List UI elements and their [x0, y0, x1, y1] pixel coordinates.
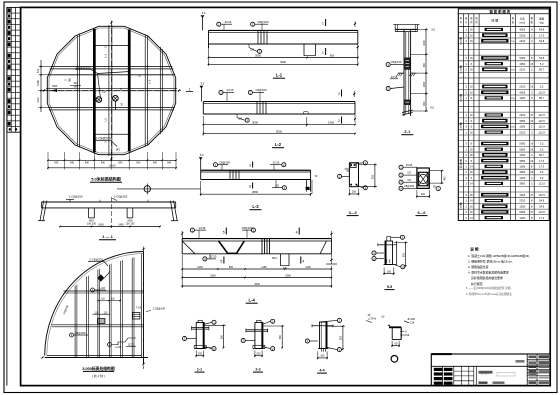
svg-text:1260: 1260	[519, 153, 525, 157]
svg-text:C8: C8	[407, 178, 411, 182]
svg-text:4: 4	[302, 259, 304, 263]
section 4-4	[312, 322, 333, 352]
svg-text:17.3: 17.3	[539, 33, 545, 37]
svg-text:M16: M16	[272, 257, 277, 260]
3-3 right dim	[359, 164, 378, 188]
L-4 section mark 4 top	[296, 228, 300, 235]
svg-text:5.0: 5.0	[432, 28, 436, 32]
svg-text:2210: 2210	[519, 33, 525, 37]
svg-text:1080: 1080	[36, 80, 40, 86]
svg-text:5.2: 5.2	[540, 170, 544, 174]
svg-text:5.0米标高结构图: 5.0米标高结构图	[91, 176, 121, 182]
L-2 section mark 2 bottom	[338, 117, 341, 124]
4-4 label	[317, 369, 327, 374]
svg-text:17.3: 17.3	[539, 159, 545, 163]
svg-text:200: 200	[352, 191, 357, 194]
1-1 dimension	[59, 223, 161, 227]
svg-text:L-1: L-1	[276, 73, 283, 78]
svg-text:4430: 4430	[254, 283, 260, 286]
5.000 plan leader text near right edge	[146, 307, 166, 312]
L-3 end detail text	[312, 175, 318, 194]
5.000 plan callout top	[88, 258, 108, 267]
svg-text:350: 350	[220, 334, 223, 339]
svg-text:100 100: 100 100	[125, 222, 135, 225]
svg-text:1260: 1260	[519, 216, 525, 220]
L-1 dimension tier 1	[208, 53, 359, 58]
plan: wall column bar left	[93, 29, 96, 152]
svg-text:100 100: 100 100	[87, 222, 97, 225]
svg-text:112.5: 112.5	[539, 193, 546, 197]
svg-text:1000: 1000	[423, 40, 426, 46]
title block middle grid	[454, 366, 515, 385]
plan: beam tags	[104, 46, 152, 143]
1-1s callout left	[182, 336, 196, 340]
Z-1 left callout lower	[386, 75, 404, 91]
L-2 callout 3 below	[237, 114, 249, 122]
6-6 label	[416, 211, 428, 216]
plan: title 5.0m level framing	[90, 176, 122, 183]
svg-text:L3: L3	[104, 118, 108, 122]
L-2 callout 2	[248, 88, 267, 101]
svg-text:100: 100	[73, 81, 78, 85]
svg-text:1180: 1180	[261, 266, 267, 269]
svg-text:2210: 2210	[519, 85, 525, 89]
svg-text:112.5: 112.5	[539, 125, 546, 129]
1-1s bottom dim	[195, 351, 204, 358]
svg-text:1260: 1260	[519, 165, 525, 169]
column Z-1 elevation	[393, 24, 419, 116]
5.000 plan label	[82, 366, 114, 378]
svg-text:5: 5	[223, 230, 225, 234]
svg-text:80.7: 80.7	[539, 153, 545, 157]
svg-text:2C16: 2C16	[227, 88, 234, 92]
svg-text:54.8: 54.8	[539, 28, 545, 32]
Z-1 label	[401, 129, 413, 135]
plan: bolt circle A	[96, 97, 102, 103]
svg-text:5.2: 5.2	[540, 142, 544, 146]
svg-text:( 共 2 处 ): ( 共 2 处 )	[92, 373, 105, 378]
rebar table rows	[458, 28, 549, 220]
L-3 left elevation mark	[199, 153, 204, 170]
svg-text:4C18: 4C18	[391, 75, 398, 79]
svg-text:2210: 2210	[519, 199, 525, 203]
svg-text:L-C8@200: L-C8@200	[114, 194, 128, 198]
L-2 dimension tier 1	[203, 117, 356, 127]
svg-text:2C16: 2C16	[273, 160, 280, 164]
L-1 callout 1	[217, 20, 232, 31]
svg-text:1450: 1450	[98, 223, 104, 226]
svg-text:54.8: 54.8	[539, 199, 545, 203]
svg-text:900: 900	[423, 62, 426, 67]
svg-text:54.8: 54.8	[539, 39, 545, 43]
L-4 callout 1 top	[190, 226, 206, 239]
L-4 dimension tier 1	[181, 266, 332, 270]
1-1s callout bottom + dim	[203, 325, 225, 351]
5.000 plan H-beam symbol B	[133, 306, 142, 319]
3-3 label	[347, 211, 359, 216]
svg-text:350: 350	[402, 252, 405, 257]
2-2 right dim	[262, 325, 284, 351]
svg-text:5000: 5000	[519, 147, 525, 151]
beam L-3 elevation	[201, 170, 311, 191]
section 1-1 small	[192, 320, 209, 348]
section 6-6 column	[417, 168, 429, 188]
plan: left dimension chain	[36, 60, 58, 112]
svg-text:L-2: L-2	[148, 80, 152, 85]
L-1 callout 2	[251, 20, 269, 31]
svg-text:简 图: 简 图	[491, 18, 498, 23]
svg-text:1-C8: 1-C8	[115, 346, 121, 349]
svg-text:Z: Z	[104, 46, 108, 48]
svg-text:1050: 1050	[197, 266, 203, 269]
L-3 callout left	[213, 160, 230, 170]
L-1 right end marks	[354, 21, 359, 50]
L-3 section mark 3 top	[249, 162, 253, 168]
5.000 plan axis marks	[40, 247, 148, 370]
svg-text:4-4: 4-4	[319, 369, 324, 373]
svg-text:1: 1	[189, 88, 191, 92]
section 5-5	[378, 237, 397, 265]
svg-text:112.5: 112.5	[539, 210, 546, 214]
Z-1 left callout upper	[386, 60, 404, 67]
svg-text:6—6: 6—6	[417, 211, 425, 215]
svg-text:2C16: 2C16	[199, 226, 206, 230]
svg-text:200: 200	[387, 270, 392, 273]
5.000 plan diamond gusset	[97, 272, 110, 282]
6-6 leader callouts	[399, 163, 417, 191]
svg-text:说 明:: 说 明:	[470, 246, 479, 251]
svg-text:5.2: 5.2	[540, 176, 544, 180]
svg-text:600: 600	[423, 101, 426, 106]
4-4 callout left	[305, 339, 317, 343]
svg-text:C8@200: C8@200	[404, 184, 415, 188]
svg-text:2C20: 2C20	[210, 255, 217, 259]
svg-text:3950: 3950	[519, 159, 525, 163]
svg-text:4C18: 4C18	[406, 163, 413, 167]
svg-text:3950: 3950	[519, 62, 525, 66]
svg-text:112.5: 112.5	[539, 182, 546, 186]
svg-text:2C16: 2C16	[225, 20, 232, 24]
svg-text:940: 940	[153, 162, 158, 165]
svg-text:L-2: L-2	[275, 142, 282, 147]
1-1s callout top	[203, 320, 216, 324]
svg-text:112.5: 112.5	[539, 90, 546, 94]
plan: callout 1-C8@200 top	[75, 65, 130, 98]
section 3-3	[345, 163, 359, 187]
svg-text:L-3: L-3	[252, 204, 259, 209]
svg-text:1-1: 1-1	[197, 368, 202, 372]
svg-text:C8@100: C8@100	[391, 60, 402, 64]
svg-text:2: 2	[338, 119, 340, 123]
beam L-4 elevation	[182, 239, 331, 266]
L-3 callout right top	[270, 160, 286, 170]
L-4 dimension tier 3	[181, 255, 332, 288]
svg-text:1170: 1170	[36, 97, 40, 103]
svg-text:Z-1: Z-1	[404, 129, 411, 134]
svg-text:200: 200	[320, 355, 325, 358]
5.000 plan interior verticals	[75, 257, 134, 357]
svg-text:5: 5	[220, 259, 222, 263]
svg-text:940: 940	[101, 162, 106, 165]
L-4 left top marks	[181, 231, 183, 239]
svg-text:13100: 13100	[109, 164, 117, 167]
2-2 label	[253, 368, 263, 373]
svg-text:4025: 4025	[519, 90, 525, 94]
axis bubble right of 1-1	[117, 184, 201, 195]
svg-text:3—3: 3—3	[349, 211, 357, 215]
svg-text:5.000标高处结构图: 5.000标高处结构图	[82, 366, 114, 371]
section 1-1 wide beam	[38, 199, 178, 220]
svg-text:长度: 长度	[520, 17, 525, 21]
svg-text:1: 1	[322, 51, 324, 55]
svg-text:Φ8: Φ8	[68, 78, 72, 82]
L-3 callout right bottom	[272, 180, 286, 190]
L-1 callout 3 below	[249, 44, 262, 54]
svg-text:-0.6: -0.6	[430, 106, 435, 110]
L-4 dimension tier 2	[181, 274, 332, 278]
5-5 right dim	[394, 242, 408, 269]
plan grid: horizontal beams	[46, 46, 177, 135]
svg-text:200: 200	[198, 353, 203, 356]
1-1 label	[99, 234, 116, 240]
L-1 dimension tier 2	[208, 46, 359, 66]
5.000 plan callout C1	[91, 286, 106, 292]
svg-text:1-C8@200: 1-C8@200	[75, 65, 91, 69]
L-4 section mark 5 top	[223, 228, 227, 235]
svg-text:5. ⌐ ¬ 表示Φ8@200双向筋加密区,详图.: 5. ⌐ ¬ 表示Φ8@200双向筋加密区,详图.	[466, 286, 511, 290]
5-5 bottom dim	[383, 268, 394, 276]
svg-text:-8×100: -8×100	[407, 317, 416, 321]
svg-text:4. 梁柱节点区箍筋加密构造要求: 4. 梁柱节点区箍筋加密构造要求	[468, 270, 509, 275]
svg-text:3: 3	[249, 184, 251, 188]
L-1 section mark 1 top	[322, 19, 326, 26]
svg-text:L-C8: L-C8	[99, 286, 105, 290]
svg-text:950: 950	[330, 53, 335, 57]
svg-text:54.8: 54.8	[539, 56, 545, 60]
3-3 callout top	[356, 161, 367, 165]
L-2 right end marks	[353, 91, 356, 123]
beam L-2 elevation	[203, 102, 355, 115]
svg-text:112.5: 112.5	[539, 113, 546, 117]
svg-text:2-C8@200: 2-C8@200	[89, 258, 103, 262]
svg-text:5-5: 5-5	[387, 285, 392, 289]
plan: centre axis lines	[42, 21, 181, 161]
L-3 label	[250, 204, 262, 210]
4-4 right dim	[327, 325, 345, 351]
svg-text:140: 140	[73, 85, 78, 89]
svg-text:5.0: 5.0	[201, 82, 205, 86]
4-4 callout top right	[320, 318, 342, 322]
svg-text:1850: 1850	[210, 274, 216, 277]
svg-text:5.0: 5.0	[200, 153, 204, 157]
svg-text:3: 3	[249, 163, 251, 167]
svg-text:1260: 1260	[519, 204, 525, 208]
svg-text:4000: 4000	[280, 60, 286, 64]
svg-text:350: 350	[340, 335, 343, 340]
svg-text:2210: 2210	[519, 113, 525, 117]
svg-text:2580: 2580	[285, 274, 291, 277]
svg-text:3. 钢筋锚固长度: 3. 钢筋锚固长度	[468, 264, 489, 269]
connection detail angle	[366, 314, 416, 339]
5-5 callouts left	[372, 251, 384, 261]
svg-text:3950: 3950	[519, 170, 525, 174]
svg-text:5.0: 5.0	[202, 11, 206, 15]
svg-text:1-C8@140: 1-C8@140	[153, 307, 166, 311]
svg-text:2210: 2210	[519, 39, 525, 43]
svg-text:L-1: L-1	[104, 54, 108, 59]
L-1 section mark 1 bottom	[322, 48, 326, 55]
Z-1 right dimension chain	[411, 28, 436, 112]
svg-text:1: 1	[322, 22, 324, 26]
1-1 labels above	[69, 194, 128, 200]
svg-text:570: 570	[36, 68, 40, 73]
L-4 stub texts	[272, 257, 287, 270]
svg-text:2210: 2210	[519, 68, 525, 72]
svg-text:6380: 6380	[519, 210, 525, 214]
svg-text:940: 940	[54, 162, 59, 165]
L-4 callout 3 top	[241, 226, 255, 239]
svg-text:C8@200: C8@200	[75, 331, 86, 335]
svg-text:1400: 1400	[328, 120, 334, 124]
4-4 bottom dim	[317, 352, 328, 360]
svg-text:7890: 7890	[52, 85, 58, 88]
svg-text:112.5: 112.5	[539, 130, 546, 134]
2-2 bottom dim	[254, 351, 263, 358]
L-4 section mark 4 bottom	[301, 257, 305, 264]
2-2 callout top	[262, 319, 275, 324]
1-1 centreline	[110, 197, 112, 228]
svg-text:C8@100: C8@100	[257, 20, 269, 24]
svg-text:1000: 1000	[423, 81, 426, 87]
svg-text:C8: C8	[250, 47, 254, 51]
L-3 dimension	[200, 181, 311, 196]
svg-text:1260: 1260	[519, 96, 525, 100]
beam L-1 elevation	[209, 30, 358, 55]
3-3 bottom dim	[349, 189, 360, 196]
svg-text:54.8: 54.8	[539, 204, 545, 208]
3-3 callout left	[338, 174, 350, 178]
plan: bolt circle B	[113, 96, 119, 110]
svg-text:C8: C8	[238, 117, 242, 121]
svg-text:5.2: 5.2	[540, 85, 544, 89]
notes block	[466, 246, 529, 296]
svg-text:940: 940	[167, 162, 172, 165]
L-2 callout 1	[219, 88, 234, 101]
svg-text:L-4: L-4	[249, 298, 256, 303]
svg-text:1260: 1260	[519, 193, 525, 197]
svg-text:(mm): (mm)	[520, 22, 526, 25]
5.000 plan step detail	[108, 338, 136, 349]
svg-text:4025: 4025	[519, 28, 525, 32]
svg-text:3050: 3050	[255, 53, 261, 57]
L-2 dimension tier 2	[203, 116, 356, 136]
5-5 label	[385, 285, 395, 290]
svg-text:1260: 1260	[519, 125, 525, 129]
svg-text:2C12: 2C12	[128, 344, 135, 347]
svg-text:1260: 1260	[519, 176, 525, 180]
title block revision cells	[434, 366, 454, 385]
revision strip table	[7, 7, 21, 132]
plan: small texts left cluster	[64, 78, 123, 94]
plan grid: vertical beams	[77, 25, 162, 156]
svg-text:5.2: 5.2	[540, 147, 544, 151]
svg-text:C8@200: C8@200	[219, 160, 231, 164]
svg-text:C8@100: C8@100	[255, 88, 267, 92]
svg-text:140: 140	[115, 148, 120, 152]
svg-text:见标准图集相关做法要求: 见标准图集相关做法要求	[471, 275, 503, 280]
5.000 level plan outline	[45, 252, 148, 365]
2-2 callout left	[241, 338, 255, 342]
svg-text:112.5: 112.5	[539, 119, 546, 123]
svg-text:2-2: 2-2	[255, 368, 260, 372]
svg-text:5000: 5000	[276, 129, 282, 133]
plan: callout bottom L-C8	[95, 137, 120, 152]
svg-text:1-C8@200: 1-C8@200	[69, 194, 83, 198]
svg-text:400: 400	[444, 176, 447, 181]
plan: bottom dimension chain	[47, 152, 177, 170]
L-2 label	[272, 142, 284, 148]
5.000 plan H-beam symbol A	[93, 312, 111, 323]
svg-text:3950: 3950	[519, 182, 525, 186]
svg-text:执行规范.: 执行规范.	[471, 281, 484, 286]
5.000 plan callout C3	[70, 331, 88, 337]
1-1s label	[195, 368, 205, 373]
svg-text:350: 350	[279, 334, 282, 339]
svg-text:940: 940	[70, 162, 75, 165]
svg-text:5000: 5000	[519, 56, 525, 60]
svg-text:C16: C16	[410, 322, 415, 325]
svg-text:1 — 1: 1 — 1	[102, 234, 113, 239]
svg-text:1-C8@200: 1-C8@200	[95, 137, 111, 141]
svg-text:80.7: 80.7	[539, 96, 545, 100]
connection detail bottom dim	[391, 341, 400, 347]
svg-text:1400: 1400	[305, 266, 311, 269]
L-4 label	[246, 298, 258, 304]
3-3 callout bottom	[357, 186, 367, 191]
L-4 callout below left	[203, 254, 217, 261]
svg-text:5000: 5000	[519, 142, 525, 146]
6-6 right dims	[429, 170, 446, 191]
svg-text:2: 2	[338, 92, 340, 96]
svg-text:400: 400	[421, 193, 426, 196]
svg-text:940: 940	[118, 162, 123, 165]
L-1 left elevation mark	[201, 11, 206, 30]
svg-text:2. 钢筋保护层 梁柱25mm,板15mm.: 2. 钢筋保护层 梁柱25mm,板15mm.	[468, 258, 513, 263]
svg-text:C8: C8	[407, 171, 411, 175]
L-2 section mark 2 top	[338, 90, 341, 97]
svg-text:3600: 3600	[252, 120, 258, 124]
svg-text:200: 200	[256, 353, 261, 356]
svg-text:5.2: 5.2	[540, 62, 544, 66]
svg-text:2800: 2800	[252, 190, 258, 194]
svg-text:2210: 2210	[519, 130, 525, 134]
rebar schedule table	[458, 9, 549, 221]
svg-text:7-C8: 7-C8	[136, 306, 142, 309]
1-1 texts below stubs	[87, 219, 135, 225]
svg-text:800: 800	[229, 266, 234, 269]
plan: wall column bar right	[128, 29, 131, 151]
L-1 label	[273, 73, 285, 79]
5-5 callout top right	[391, 235, 405, 239]
6-6 bottom dim	[416, 190, 430, 198]
section 2-2 small	[246, 320, 268, 348]
connection detail axis bubble	[391, 356, 398, 363]
title block	[431, 353, 550, 386]
svg-text:M16: M16	[405, 334, 410, 337]
L-4 section mark 5 bottom	[220, 257, 224, 264]
L-4 right end marks	[326, 231, 337, 264]
svg-text:钢 筋 明 细 表: 钢 筋 明 细 表	[489, 9, 510, 14]
